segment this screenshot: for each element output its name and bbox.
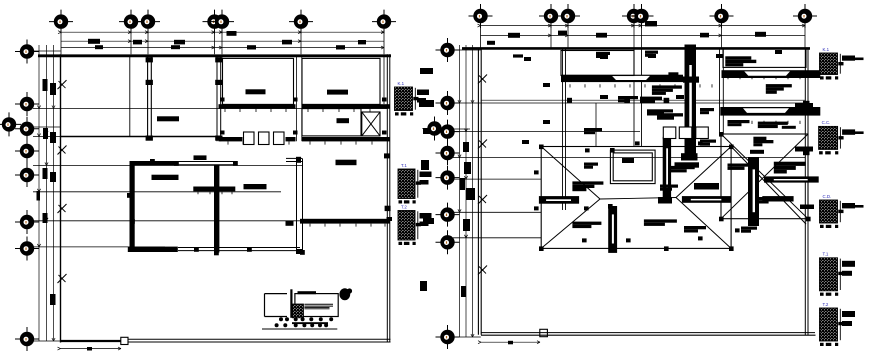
svg-text:C.D.: C.D. — [823, 194, 832, 199]
svg-text:T.2: T.2 — [401, 204, 407, 209]
svg-text:T.1: T.1 — [401, 163, 407, 168]
svg-text:T.1: T.1 — [823, 252, 829, 257]
svg-text:K.1: K.1 — [398, 81, 405, 86]
svg-text:K.1: K.1 — [823, 47, 830, 52]
svg-text:T.2: T.2 — [823, 302, 829, 307]
svg-text:C.C.: C.C. — [822, 120, 831, 125]
